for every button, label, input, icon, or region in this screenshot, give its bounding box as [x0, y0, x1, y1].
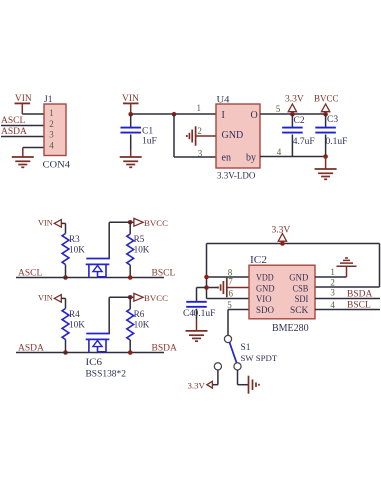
- node BSCL label (shifter): [152, 269, 176, 279]
- svg-text:6: 6: [228, 289, 233, 299]
- power port 3.3V (S1): [188, 380, 213, 390]
- power port BVCC (R5): [130, 218, 168, 228]
- svg-text:10K: 10K: [134, 320, 150, 330]
- value BSS138*2: [86, 370, 127, 380]
- pin number 2 (J1): [49, 119, 54, 129]
- ground (C4): [186, 331, 208, 341]
- value 10K (R5): [134, 245, 150, 255]
- wire U4 pin5 to caps: [260, 113, 326, 115]
- value SW SPDT: [241, 353, 278, 363]
- wire VIN rail to U4 pin1: [131, 113, 216, 115]
- svg-text:BVCC: BVCC: [144, 293, 168, 303]
- svg-text:CON4: CON4: [43, 161, 71, 171]
- designator R4: [69, 309, 80, 319]
- ground (C3): [315, 157, 337, 180]
- power port 3.3V (top): [285, 95, 304, 115]
- svg-text:2: 2: [197, 126, 202, 136]
- pin number 8 (IC2): [228, 267, 233, 277]
- IC2 pin name SCK: [290, 305, 308, 316]
- node ASCL label: [1, 116, 25, 126]
- svg-text:10K: 10K: [69, 245, 85, 255]
- svg-text:R6: R6: [134, 309, 145, 319]
- svg-text:BSDA: BSDA: [152, 344, 177, 354]
- transistor Q2 (BSS138 b): [86, 334, 110, 353]
- svg-text:IC2: IC2: [250, 255, 267, 266]
- junction at en branch: [172, 112, 177, 117]
- svg-text:C3: C3: [327, 115, 338, 125]
- junction R6/BSDA: [128, 350, 133, 355]
- capacitor C2: [282, 114, 303, 157]
- pin number 4 (J1): [49, 140, 54, 150]
- svg-text:2: 2: [330, 278, 335, 288]
- pin number 2 (IC2): [330, 278, 335, 288]
- svg-text:1: 1: [196, 103, 201, 113]
- node BSDA label (IC2): [347, 290, 372, 300]
- wire J1 pin1: [22, 113, 44, 115]
- power port VIN (R4): [38, 293, 66, 308]
- pin number 1 (IC2): [330, 267, 335, 277]
- svg-text:BSDA: BSDA: [347, 290, 372, 300]
- power port BVCC (R6): [130, 293, 168, 303]
- value 10K (R6): [134, 320, 150, 330]
- junction pin8: [204, 275, 209, 280]
- junction at C3: [323, 112, 328, 117]
- svg-text:3.3V: 3.3V: [188, 380, 206, 390]
- value BME280: [272, 323, 309, 334]
- svg-text:GND: GND: [289, 273, 308, 284]
- svg-text:SW SPDT: SW SPDT: [241, 353, 278, 363]
- node BSDA label (shifter): [152, 344, 177, 354]
- svg-text:1: 1: [49, 108, 54, 118]
- wire SCK pin4: [315, 309, 380, 311]
- junction at C2: [290, 112, 295, 117]
- wire U4 pin4 to cap bottoms: [260, 156, 326, 158]
- svg-text:J1: J1: [44, 95, 53, 105]
- pin number 5 (IC2): [227, 300, 232, 310]
- svg-text:BVCC: BVCC: [144, 218, 168, 228]
- svg-text:SDO: SDO: [256, 305, 274, 316]
- IC2 pin name VDD: [256, 273, 274, 284]
- svg-text:2: 2: [49, 119, 54, 129]
- U4 pin name by: [246, 153, 256, 164]
- designator C1: [142, 127, 153, 137]
- wire throw A to 3.3V: [212, 370, 218, 385]
- svg-text:U4: U4: [217, 96, 230, 106]
- svg-text:IC6: IC6: [86, 358, 103, 368]
- pin number 1 (J1): [49, 108, 54, 118]
- ground (J1 pin4): [12, 157, 34, 167]
- capacitor C4: [186, 302, 207, 331]
- pin number 3 (J1): [49, 130, 54, 140]
- sensor IC2 body: [249, 265, 315, 319]
- svg-text:3: 3: [49, 130, 54, 140]
- svg-text:VDD: VDD: [256, 273, 274, 284]
- svg-text:GND: GND: [256, 284, 275, 295]
- junction 3.3V tap: [280, 241, 285, 246]
- ground (S1): [249, 376, 260, 394]
- svg-text:I: I: [222, 110, 225, 121]
- pin number 4 (U4): [277, 147, 282, 157]
- designator R3: [69, 234, 80, 244]
- svg-text:7: 7: [228, 277, 233, 287]
- ground (U4 pin2): [187, 126, 196, 146]
- svg-text:1: 1: [330, 267, 335, 277]
- value 3.3V-LDO: [217, 171, 256, 181]
- svg-text:S1: S1: [241, 343, 251, 353]
- svg-text:BSCL: BSCL: [152, 269, 176, 279]
- node ASDA label: [1, 127, 27, 137]
- value 4.7uF: [293, 137, 315, 147]
- svg-text:R5: R5: [134, 234, 145, 244]
- svg-text:5: 5: [227, 300, 232, 310]
- svg-text:SDI: SDI: [295, 294, 309, 305]
- junction R5/BSCL: [128, 275, 133, 280]
- designator R6: [134, 309, 145, 319]
- svg-text:C2: C2: [294, 116, 305, 126]
- pin number 3 (IC2): [330, 288, 335, 298]
- designator C4: [183, 309, 194, 319]
- designator C3: [327, 115, 338, 125]
- U4 pin name I: [222, 110, 225, 121]
- node BSCL label (IC2): [347, 301, 371, 311]
- pin number 7 (IC2): [228, 277, 233, 287]
- svg-text:3.3V: 3.3V: [272, 226, 291, 236]
- designator R5: [134, 234, 145, 244]
- svg-text:ASDA: ASDA: [18, 344, 44, 354]
- designator C2: [294, 116, 305, 126]
- svg-text:10K: 10K: [134, 245, 150, 255]
- value CON4: [43, 161, 71, 171]
- junction at C1: [128, 112, 133, 117]
- wire throw B to ground: [238, 370, 249, 385]
- IC2 pin name CSB: [293, 284, 309, 295]
- switch S1 throw B contact: [234, 363, 241, 370]
- connector J1 body: [44, 104, 66, 156]
- value 0.1uF (C4): [194, 309, 216, 319]
- U4 pin name en: [222, 153, 231, 164]
- wire gate Q2: [109, 297, 130, 333]
- IC2 pin name GND left: [256, 284, 275, 295]
- svg-text:0.1uF: 0.1uF: [326, 137, 348, 147]
- svg-text:R4: R4: [69, 309, 80, 319]
- junction R5/gate: [128, 220, 133, 225]
- svg-text:0.1uF: 0.1uF: [194, 309, 216, 319]
- ground (IC2 pin7): [218, 278, 227, 298]
- wire SDO pin5: [228, 310, 249, 336]
- wire J1 pin4: [23, 148, 44, 158]
- ground (C1): [120, 157, 142, 167]
- wire ASDA: [16, 352, 164, 354]
- capacitor C3: [315, 114, 336, 157]
- wire ASCL to J1 pin2: [1, 125, 44, 127]
- designator U4: [217, 96, 230, 106]
- svg-text:C1: C1: [142, 127, 153, 137]
- ground (IC2 pin1, inverted): [337, 258, 357, 266]
- node ASCL label (shifter): [18, 269, 42, 279]
- pin number 3 (U4): [198, 148, 203, 158]
- value 10K (R3): [69, 245, 85, 255]
- designator J1: [44, 95, 53, 105]
- svg-text:VIN: VIN: [38, 218, 53, 227]
- svg-text:3.3V: 3.3V: [285, 95, 304, 105]
- pin number 6 (IC2): [228, 289, 233, 299]
- power port 3.3V (IC2): [272, 226, 291, 244]
- power port VIN (R3): [38, 218, 66, 233]
- svg-text:en: en: [222, 153, 231, 164]
- svg-text:R3: R3: [69, 234, 80, 244]
- svg-text:5: 5: [276, 104, 281, 114]
- junction pin7 branch: [204, 285, 209, 290]
- svg-text:4: 4: [330, 300, 335, 310]
- pin number 1 (U4): [196, 103, 201, 113]
- resistor R5: [127, 222, 134, 277]
- wire gate Q1: [109, 222, 130, 258]
- junction at C3 bottom: [323, 154, 328, 159]
- wire 3.3V rail (IC2): [207, 244, 380, 299]
- node ASDA label (shifter): [18, 344, 44, 354]
- resistor R6: [127, 297, 134, 352]
- junction R6/gate: [128, 295, 133, 300]
- power port VIN (LDO input): [122, 94, 139, 113]
- svg-text:VIN: VIN: [38, 293, 53, 302]
- svg-text:BME280: BME280: [272, 323, 309, 334]
- capacitor C1: [120, 114, 141, 157]
- resistor R4: [62, 309, 69, 353]
- svg-text:SCK: SCK: [290, 305, 308, 316]
- wire SDI pin3: [315, 298, 380, 300]
- wire ASDA to J1 pin3: [1, 136, 44, 138]
- svg-text:ASCL: ASCL: [1, 116, 25, 126]
- wire to C4: [197, 288, 207, 302]
- svg-text:BSCL: BSCL: [347, 301, 371, 311]
- value 10K (R4): [69, 320, 85, 330]
- designator IC6: [86, 358, 103, 368]
- svg-text:BVCC: BVCC: [314, 94, 339, 104]
- junction R3/ASCL: [63, 275, 68, 280]
- junction R4/ASDA: [63, 350, 68, 355]
- svg-text:3: 3: [198, 148, 203, 158]
- svg-text:GND: GND: [222, 130, 244, 141]
- svg-text:1uF: 1uF: [142, 137, 157, 147]
- pin number 2 (U4): [197, 126, 202, 136]
- value 1uF: [142, 137, 157, 147]
- value 0.1uF: [326, 137, 348, 147]
- wire GND pin7: [207, 287, 250, 289]
- pin number 5 (U4): [276, 104, 281, 114]
- U4 pin name O: [251, 110, 258, 121]
- svg-text:4.7uF: 4.7uF: [293, 137, 315, 147]
- IC2 pin name SDI: [295, 294, 309, 305]
- svg-text:10K: 10K: [69, 320, 85, 330]
- regulator U4 body: [216, 104, 260, 168]
- svg-text:4: 4: [277, 147, 282, 157]
- svg-text:3.3V-LDO: 3.3V-LDO: [217, 171, 256, 181]
- svg-text:CSB: CSB: [293, 284, 309, 295]
- switch S1 throw A contact: [214, 363, 221, 370]
- IC2 pin name SDO: [256, 305, 274, 316]
- power port VIN (J1): [15, 94, 32, 114]
- wire GND pin1: [315, 266, 347, 277]
- wire VDD pin8: [207, 276, 250, 278]
- pin number 4 (IC2): [330, 300, 335, 310]
- svg-text:ASDA: ASDA: [1, 127, 27, 137]
- svg-text:by: by: [246, 153, 256, 164]
- IC2 pin name GND right: [289, 273, 308, 284]
- resistor R3: [62, 234, 69, 278]
- transistor Q1 (BSS138 a): [86, 259, 110, 278]
- wire en branch: [174, 114, 216, 157]
- svg-text:3: 3: [330, 288, 335, 298]
- U4 pin name GND: [222, 130, 244, 141]
- svg-text:ASCL: ASCL: [18, 269, 42, 279]
- wire rail to CSB: [315, 244, 380, 288]
- svg-text:BSS138*2: BSS138*2: [86, 370, 127, 380]
- designator IC2: [250, 255, 267, 266]
- svg-text:VIO: VIO: [256, 294, 272, 305]
- svg-text:O: O: [251, 110, 258, 121]
- switch S1 blade: [230, 342, 237, 363]
- designator S1: [241, 343, 251, 353]
- switch S1 common contact: [224, 335, 231, 342]
- wire ASCL: [16, 277, 164, 279]
- IC2 pin name VIO: [256, 294, 272, 305]
- U4 pin2 wire: [196, 135, 216, 137]
- power port BVCC (top): [314, 94, 339, 115]
- svg-text:4: 4: [49, 140, 54, 150]
